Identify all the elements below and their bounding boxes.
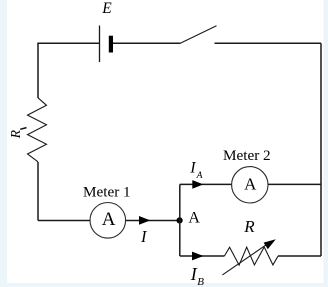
svg-text:A: A (196, 171, 203, 181)
meter 1 circle (90, 203, 126, 239)
svg-text:I: I (189, 160, 196, 177)
svg-text:E: E (101, 0, 112, 17)
wire: top left horizontal to battery (37, 162, 39, 221)
meter 2 circle (232, 167, 268, 203)
wire: branch vertical at node A (179, 184, 181, 256)
variable resistor arrowhead (264, 239, 276, 249)
wire: upper branch to Meter 2 (180, 183, 232, 185)
switch blade (180, 26, 217, 44)
svg-text:Meter 1: Meter 1 (83, 183, 131, 200)
svg-text:B: B (197, 276, 204, 287)
wire: bottom left horizontal to Meter 1 (38, 220, 90, 222)
variable resistor arrow shaft (222, 244, 268, 275)
svg-text:R: R (243, 217, 255, 236)
resistor R1 zigzag (28, 98, 47, 162)
node A dot (177, 217, 183, 223)
wire: Meter 1 to node A (126, 220, 180, 222)
svg-text:A: A (244, 175, 257, 194)
label R1 subscript 1 (rotated) (20, 128, 26, 130)
wire: Meter 2 to right wire (268, 183, 321, 185)
battery E long plate (99, 26, 101, 63)
wire: switch to top right corner (215, 42, 322, 44)
svg-text:Meter 2: Meter 2 (223, 147, 271, 164)
resistor R zigzag (224, 247, 278, 265)
svg-text:R: R (8, 129, 23, 139)
battery E short thick plate (109, 36, 113, 53)
wire: lower branch left (180, 255, 225, 257)
wire: battery to switch (113, 42, 180, 44)
current arrow IA (192, 180, 203, 189)
current arrow I (139, 216, 150, 225)
wire: left vertical upper (top corner to resistor R1) (38, 43, 100, 98)
current arrow IB (192, 252, 204, 261)
svg-text:A: A (102, 209, 116, 230)
svg-text:A: A (188, 210, 200, 227)
wire: lower branch right (278, 255, 321, 257)
wire: right vertical (320, 43, 322, 256)
